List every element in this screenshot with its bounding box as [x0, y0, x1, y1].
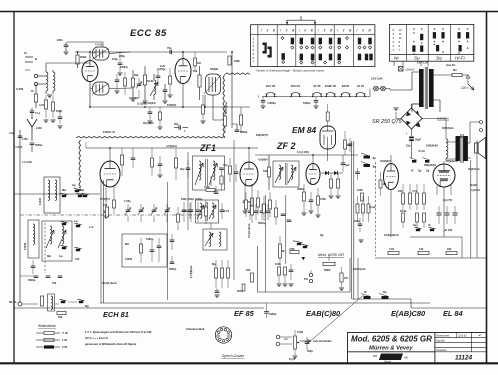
svg-text:(72 t) » » »: (72 t) » » » Fern-O	[85, 336, 109, 340]
svg-text:0,1μF: 0,1μF	[369, 205, 376, 209]
svg-text:x 1,6 Mz: x 1,6 Mz	[22, 160, 33, 164]
svg-text:12034: 12034	[38, 197, 42, 205]
svg-text:470k: 470k	[289, 247, 295, 251]
svg-text:245(264)V: 245(264)V	[426, 144, 438, 148]
svg-text:1M: 1M	[344, 276, 348, 280]
svg-text:12033: 12033	[125, 257, 133, 261]
svg-text:0,1(30)V: 0,1(30)V	[137, 102, 148, 106]
svg-text:5,2V 0,9A: 5,2V 0,9A	[371, 77, 383, 81]
svg-text:220 v: 220 v	[460, 86, 469, 90]
svg-text:180p: 180p	[181, 197, 187, 201]
svg-text:1(1)V: 1(1)V	[289, 357, 296, 361]
svg-text:70μ: 70μ	[223, 163, 228, 167]
svg-text:5000p: 5000p	[28, 278, 36, 282]
svg-text:0,7(30)V: 0,7(30)V	[129, 96, 139, 100]
svg-text:40(160)V: 40(160)V	[380, 159, 391, 163]
svg-text:7-25p: 7-25p	[124, 199, 131, 203]
svg-text:4,7(6)mA: 4,7(6)mA	[166, 144, 177, 148]
svg-text:5600μ: 5600μ	[258, 221, 266, 225]
svg-text:NF-TA: NF-TA	[9, 300, 17, 304]
svg-text:Hi-Fi: Hi-Fi	[455, 56, 466, 61]
svg-text:39p: 39p	[134, 73, 139, 77]
svg-text:EL 84: EL 84	[443, 309, 463, 318]
svg-text:Ri: Ri	[364, 290, 367, 294]
svg-text:Gezeichnet: Gezeichnet	[436, 334, 449, 338]
svg-text:EM 84: EM 84	[342, 84, 350, 88]
svg-text:Sq: Sq	[426, 169, 430, 173]
svg-text:70k: 70k	[52, 281, 57, 285]
svg-text:28(33)mA: 28(33)mA	[446, 159, 458, 163]
svg-text:12047: 12047	[458, 135, 466, 139]
svg-text:gemessen in Mittelwelle ohne H: gemessen in Mittelwelle ohne HF-Signal	[84, 342, 136, 346]
svg-text:Sp: Sp	[414, 56, 420, 61]
svg-text:SR 250 Q75: SR 250 Q75	[372, 119, 403, 125]
svg-text:200Ω: 200Ω	[80, 55, 86, 59]
svg-text:ECH 81: ECH 81	[291, 84, 301, 88]
svg-text:EABC 80: EABC 80	[325, 84, 337, 88]
svg-text:67,5(7)V: 67,5(7)V	[100, 197, 110, 201]
svg-text:Ru: Ru	[453, 68, 457, 72]
svg-text:47k: 47k	[75, 257, 80, 261]
svg-text:4,(04)/1: 4,(04)/1	[471, 188, 480, 192]
svg-text:EF 85: EF 85	[234, 309, 255, 318]
svg-text:26,3k: 26,3k	[400, 209, 407, 213]
svg-text:4,70: 4,70	[224, 209, 230, 213]
svg-text:5μF: 5μF	[345, 163, 350, 167]
svg-text:10k: 10k	[103, 203, 108, 207]
svg-text:Zürich: Zürich	[384, 360, 392, 364]
svg-text:1000p: 1000p	[195, 197, 203, 201]
svg-text:52k: 52k	[193, 69, 198, 73]
svg-text:110mA: 110mA	[405, 68, 414, 72]
svg-text:100k: 100k	[275, 262, 281, 266]
svg-text:0/1(4,9)V: 0/1(4,9)V	[143, 121, 154, 125]
svg-text:U₁: U₁	[293, 239, 296, 243]
svg-text:Nr: Nr	[394, 56, 399, 61]
svg-text:Mg: Mg	[212, 262, 216, 266]
svg-text:52(3)Ω: 52(3)Ω	[210, 67, 218, 71]
svg-text:EM 84: EM 84	[292, 125, 317, 135]
svg-text:max 50~: max 50~	[446, 63, 457, 67]
svg-text:500: 500	[58, 315, 63, 319]
svg-text:Sprech-Zusatz: Sprech-Zusatz	[222, 354, 244, 358]
svg-text:52k: 52k	[246, 268, 251, 272]
svg-text:Geprüft: Geprüft	[436, 339, 445, 343]
svg-text:0,5M: 0,5M	[297, 330, 303, 334]
svg-text:72,1(7,2)mA: 72,1(7,2)mA	[247, 223, 251, 238]
svg-text:12033: 12033	[23, 242, 27, 250]
svg-text:Mürren & Vevey: Mürren & Vevey	[369, 346, 413, 352]
svg-text:DEWALD: DEWALD	[381, 355, 402, 360]
svg-text:222(307)V: 222(307)V	[256, 133, 268, 137]
svg-text:9,(4,7)V: 9,(4,7)V	[443, 198, 452, 202]
svg-text:1,73(8)mA: 1,73(8)mA	[189, 265, 193, 278]
svg-text:Sp: Sp	[413, 223, 417, 227]
svg-text:±7μ: ±7μ	[9, 131, 14, 135]
svg-text:Ug: Ug	[72, 183, 76, 187]
svg-text:500p: 500p	[307, 349, 313, 353]
svg-text:£100: £100	[36, 126, 42, 130]
svg-text:100k: 100k	[357, 188, 363, 192]
svg-text:Tasten in Gebrauchslage - Bo: Tasten in Gebrauchslage - Bouton poussoi…	[256, 69, 324, 73]
svg-text:Ω: Ω	[35, 57, 37, 61]
svg-text:Sp: Sp	[418, 169, 422, 173]
svg-text:32(34): 32(34)	[148, 101, 156, 105]
svg-text:ECC 85: ECC 85	[130, 28, 167, 39]
svg-text:Hi: Hi	[428, 223, 431, 227]
svg-text:5600p: 5600p	[169, 267, 177, 271]
svg-text:220: 220	[398, 189, 403, 193]
svg-text:9(10,2)mA: 9(10,2)mA	[224, 101, 228, 114]
svg-text:zum Verstärker: zum Verstärker	[312, 339, 333, 343]
svg-text:220k: 220k	[234, 59, 240, 63]
svg-text:5600μ: 5600μ	[35, 143, 43, 147]
svg-text:Vi: Vi	[411, 169, 414, 173]
svg-text:ECC 85: ECC 85	[266, 84, 276, 88]
svg-text:11124: 11124	[455, 355, 472, 362]
svg-text:100p: 100p	[354, 219, 360, 223]
svg-text:220v: 220v	[57, 38, 63, 42]
svg-text:5(4)Ω: 5(4)Ω	[470, 183, 477, 187]
svg-text:0,94(0,9)mA: 0,94(0,9)mA	[384, 233, 399, 237]
svg-text:390(343)V: 390(343)V	[424, 163, 436, 167]
svg-text:Sp: Sp	[373, 156, 377, 160]
svg-text:1 W: 1 W	[62, 338, 67, 342]
svg-text:EAB(C)80: EAB(C)80	[306, 309, 341, 318]
svg-text:AG: AG	[404, 356, 409, 360]
svg-text:Mod. 6205 GR: Mod. 6205 GR	[318, 252, 344, 257]
svg-text:U·KW: U·KW	[16, 87, 24, 91]
svg-text:4,5(90)V: 4,5(90)V	[258, 158, 268, 162]
svg-text:5400μ: 5400μ	[303, 101, 311, 105]
svg-text:4,5k: 4,5k	[389, 247, 395, 251]
svg-text:5600p: 5600p	[240, 130, 248, 134]
svg-text:E(AB)C80: E(AB)C80	[391, 309, 426, 318]
svg-text:EL 84: EL 84	[357, 84, 364, 88]
svg-text:7,5-25: 7,5-25	[95, 43, 103, 47]
svg-text:215(21..)V: 215(21..)V	[103, 130, 115, 134]
svg-text:52k: 52k	[263, 169, 268, 173]
svg-text:5400p: 5400p	[269, 312, 277, 316]
svg-text:50μF: 50μF	[415, 138, 421, 142]
svg-text:≈1700: ≈1700	[15, 145, 23, 149]
svg-text:EF 85: EF 85	[314, 84, 321, 88]
svg-text:≈0,1A: ≈0,1A	[418, 149, 425, 153]
svg-text:Rp: Rp	[383, 290, 387, 294]
svg-text:1,1(1,15)V: 1,1(1,15)V	[297, 150, 309, 154]
svg-text:2 W: 2 W	[62, 345, 67, 349]
svg-text:22.6.61: 22.6.61	[458, 334, 467, 338]
svg-text:30p: 30p	[174, 122, 179, 126]
svg-text:ECH 81: ECH 81	[103, 310, 129, 319]
svg-text:Gesehen: Gesehen	[436, 348, 447, 352]
svg-text:100k: 100k	[204, 185, 210, 189]
svg-text:52(3): 52(3)	[56, 109, 62, 113]
svg-text:Gitteranschluß: Gitteranschluß	[186, 327, 205, 331]
svg-text:½ W: ½ W	[62, 331, 68, 335]
svg-text:Sq: Sq	[436, 56, 442, 61]
svg-text:30(27)mA: 30(27)mA	[468, 167, 480, 171]
svg-text:Mg: Mg	[85, 304, 89, 308]
svg-text:1700: 1700	[22, 137, 28, 141]
svg-text:Mod. 6205 & 6205 GR: Mod. 6205 & 6205 GR	[351, 335, 432, 344]
svg-text:±7 μ: ±7 μ	[35, 111, 41, 115]
svg-text:20μ: 20μ	[180, 167, 185, 171]
svg-text:470k: 470k	[320, 197, 326, 201]
svg-text:U1(U4)mA: U1(U4)mA	[353, 267, 366, 271]
svg-text:Rg: Rg	[320, 233, 324, 237]
svg-text:F 2 1. Spannungen und Ströme: F 2 1. Spannungen und Ströme für GR Fern…	[85, 330, 152, 334]
svg-text:67(50)V: 67(50)V	[167, 103, 176, 107]
svg-text:+: +	[406, 132, 408, 136]
svg-text:ZF 2: ZF 2	[276, 141, 296, 151]
svg-text:500p: 500p	[188, 197, 194, 201]
svg-text:Widerstände: Widerstände	[38, 324, 56, 328]
svg-text:50(72)mA: 50(72)mA	[442, 126, 454, 130]
svg-text:32(94): 32(94)	[120, 65, 128, 69]
svg-text:1M: 1M	[197, 61, 201, 65]
svg-text:70p: 70p	[167, 46, 172, 50]
svg-text:3600p: 3600p	[297, 187, 305, 191]
svg-text:22k: 22k	[447, 247, 452, 251]
svg-text:4,7k: 4,7k	[412, 189, 418, 193]
svg-text:52,3k: 52,3k	[147, 79, 154, 83]
svg-text:907μ: 907μ	[237, 289, 243, 293]
svg-text:12V 0,1A: 12V 0,1A	[417, 61, 428, 65]
svg-text:≈2000μ: ≈2000μ	[267, 101, 276, 105]
svg-text:12k: 12k	[419, 247, 424, 251]
svg-text:680Ω: 680Ω	[324, 268, 330, 272]
svg-text:110p: 110p	[112, 57, 118, 61]
svg-text:5400p: 5400p	[146, 237, 154, 241]
svg-text:MHB: MHB	[78, 188, 84, 192]
svg-text:x+2: x+2	[89, 225, 94, 229]
svg-text:μF 700: μF 700	[444, 228, 453, 232]
svg-text:64,2(3,4)mA: 64,2(3,4)mA	[102, 281, 117, 285]
svg-text:2,2k: 2,2k	[160, 64, 166, 68]
svg-text:4,7k: 4,7k	[39, 103, 45, 107]
svg-text:22μ: 22μ	[406, 144, 411, 148]
